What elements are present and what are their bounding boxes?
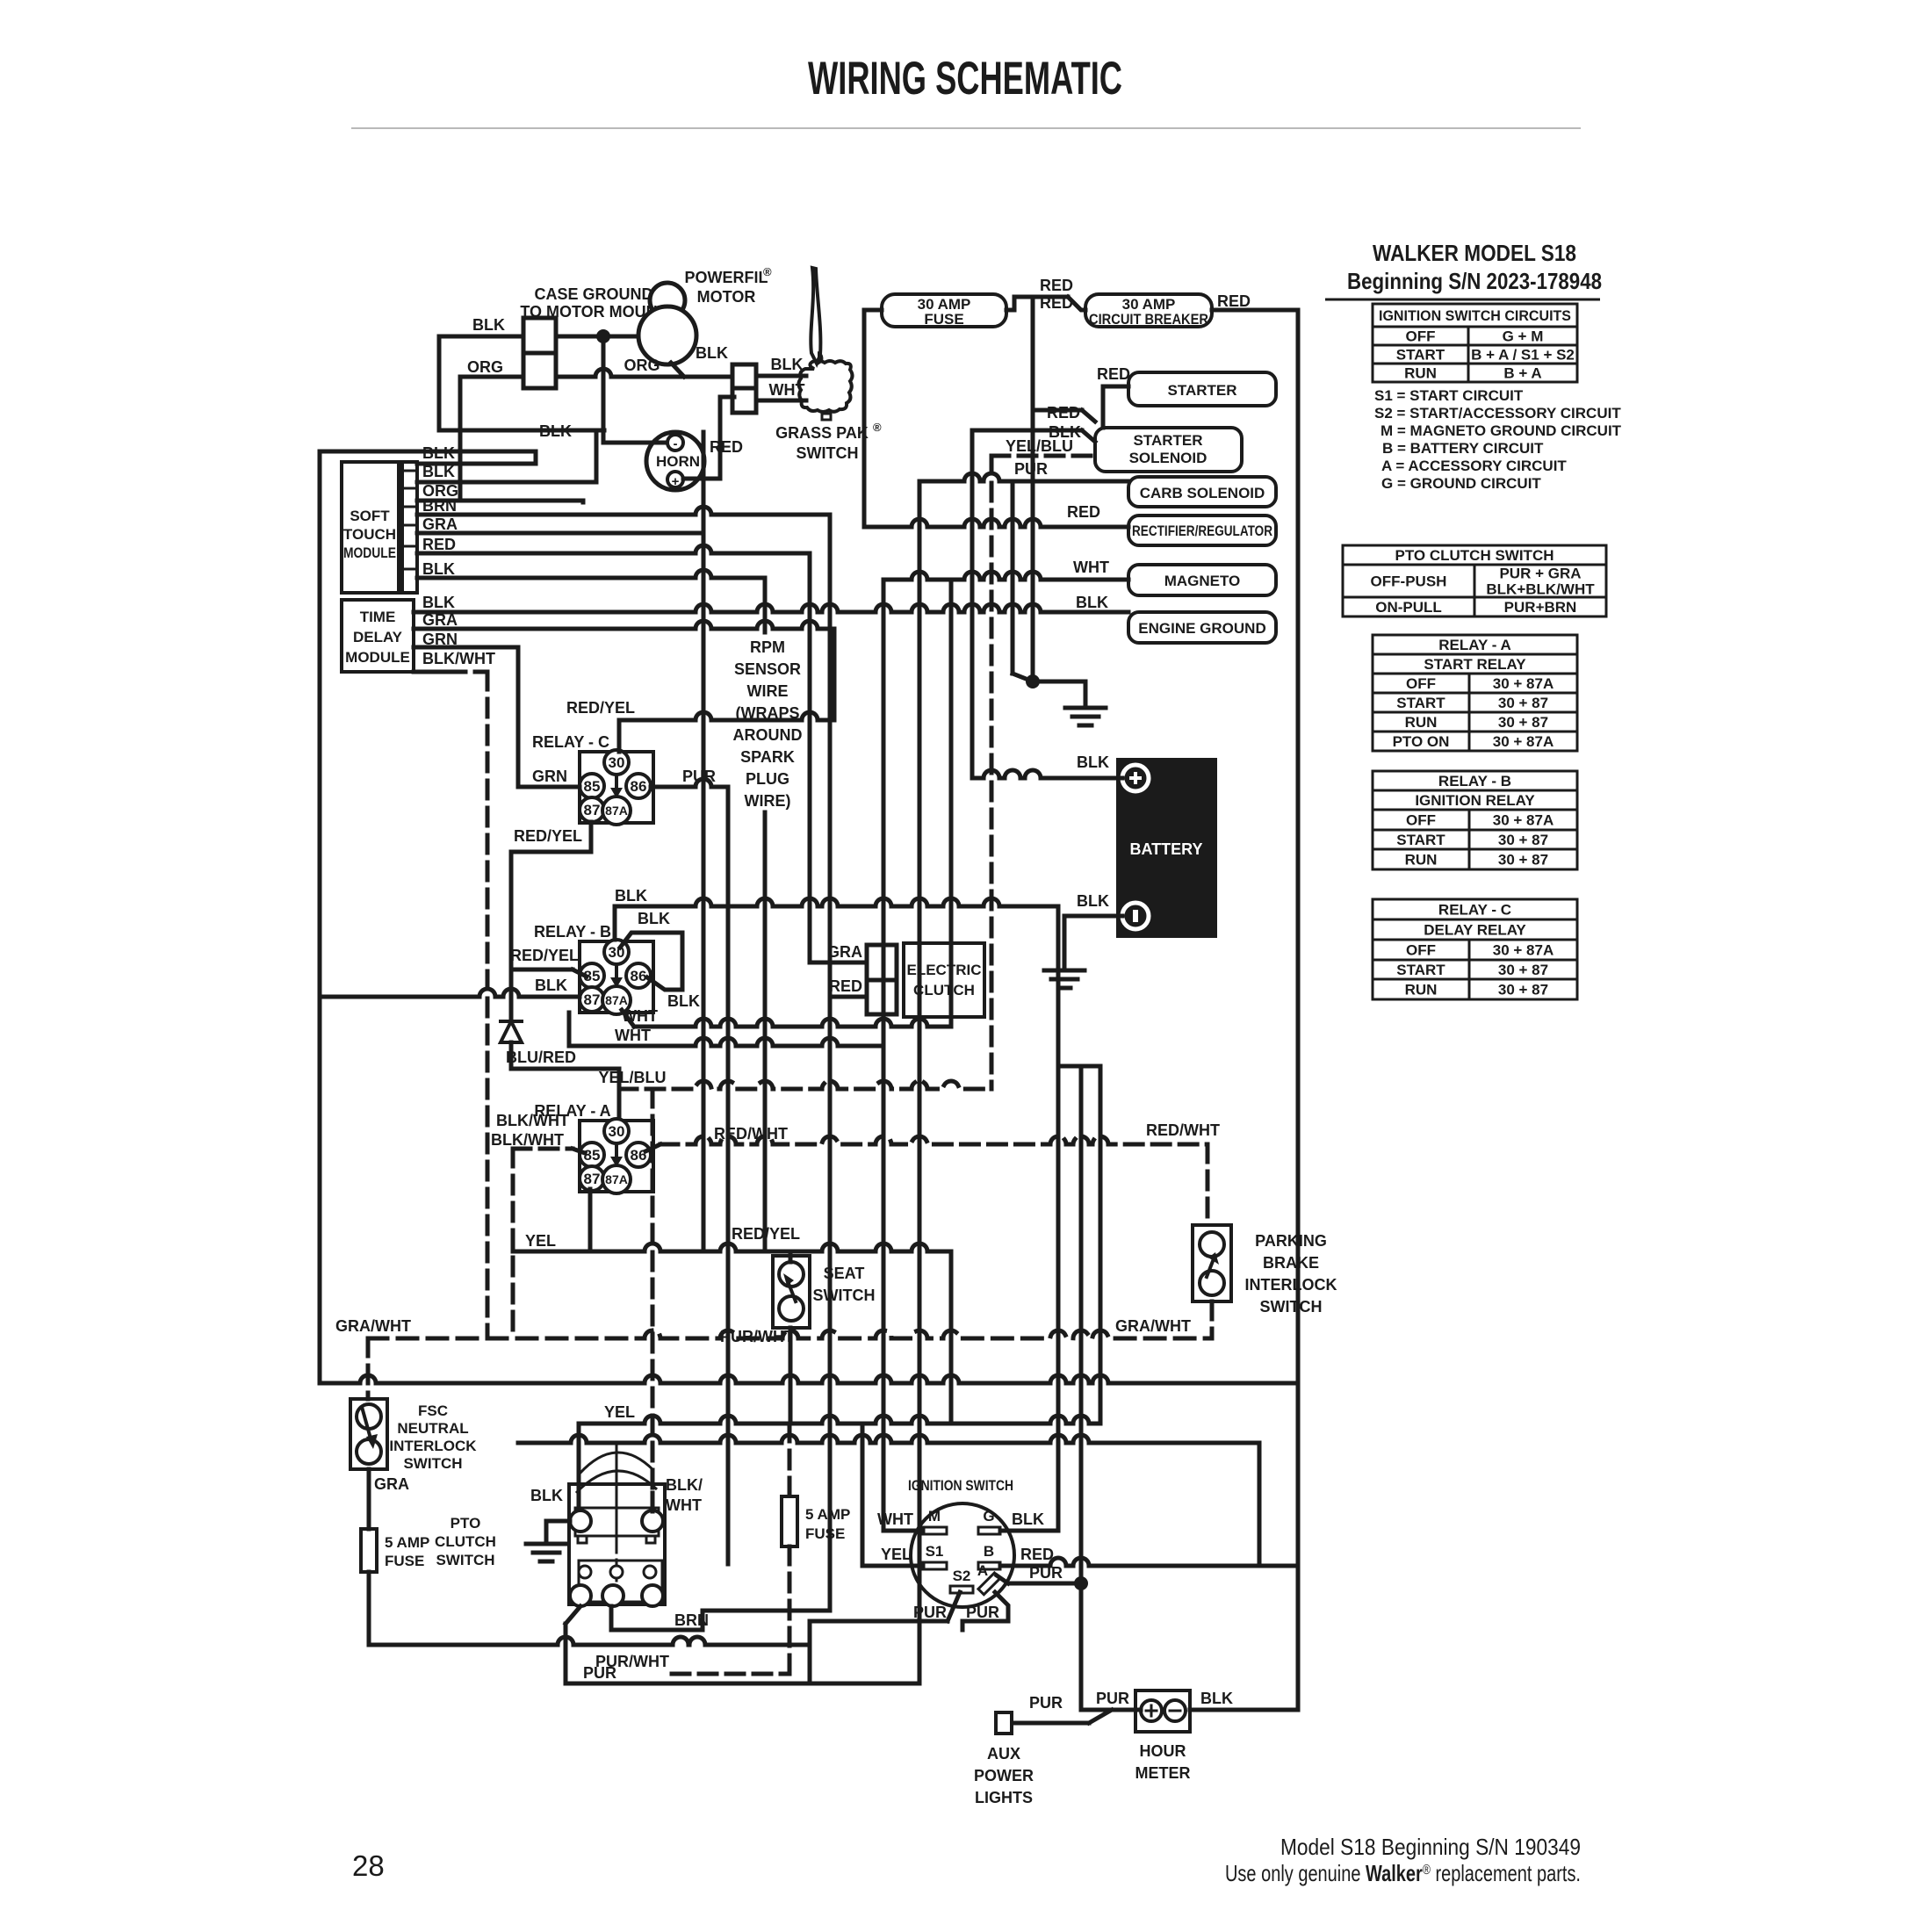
svg-text:IGNITION RELAY: IGNITION RELAY: [1415, 792, 1535, 809]
PTO CLUTCH SWITCH outer box: [569, 1484, 665, 1604]
svg-text:ORG: ORG: [467, 358, 503, 376]
svg-text:START: START: [1396, 832, 1445, 848]
svg-text:RED/WHT: RED/WHT: [1146, 1121, 1220, 1139]
svg-text:BLK: BLK: [530, 1487, 563, 1504]
svg-text:METER: METER: [1135, 1764, 1191, 1782]
relay B arrow 30-87A: [615, 964, 618, 979]
svg-text:30 + 87: 30 + 87: [1498, 695, 1548, 711]
svg-text:PLUG: PLUG: [746, 770, 789, 788]
svg-text:SOLENOID: SOLENOID: [1129, 450, 1207, 466]
svg-text:RED: RED: [1047, 404, 1080, 422]
relay A pin 30: [604, 1119, 629, 1143]
svg-text:BLK+BLK/WHT: BLK+BLK/WHT: [1486, 581, 1595, 598]
30 AMP CIRCUIT BREAKER: [1085, 294, 1212, 327]
svg-text:PUR: PUR: [1029, 1564, 1063, 1582]
fuse F2 5 AMP middle body: [782, 1496, 797, 1546]
svg-text:RELAY - A: RELAY - A: [1438, 637, 1511, 653]
relay A box: [580, 1121, 653, 1192]
ignition terminal B: [978, 1562, 1000, 1569]
ignition terminal S2: [950, 1586, 973, 1593]
svg-text:30 + 87: 30 + 87: [1498, 982, 1548, 998]
wire bus carb PUR vertical: [1011, 481, 1015, 674]
svg-text:86: 86: [631, 778, 647, 795]
svg-text:BLK: BLK: [1076, 594, 1108, 611]
ground symbol engine: [1065, 708, 1106, 725]
relay C pin 87A: [602, 797, 631, 825]
svg-text:PTO CLUTCH SWITCH: PTO CLUTCH SWITCH: [1395, 547, 1554, 564]
svg-text:B + A: B + A: [1503, 365, 1541, 382]
svg-text:RED: RED: [1097, 365, 1130, 383]
svg-text:RED/YEL: RED/YEL: [566, 699, 635, 717]
svg-text:RED: RED: [710, 438, 743, 456]
svg-text:WHT: WHT: [666, 1496, 702, 1514]
svg-text:S1 = START CIRCUIT: S1 = START CIRCUIT: [1374, 387, 1524, 404]
svg-text:BLK: BLK: [1077, 753, 1109, 771]
svg-text:A: A: [977, 1562, 988, 1579]
svg-text:5 AMP: 5 AMP: [385, 1534, 429, 1551]
svg-text:ELECTRIC: ELECTRIC: [907, 962, 982, 978]
svg-text:-: -: [674, 436, 678, 451]
svg-text:PUR/WHT: PUR/WHT: [595, 1653, 669, 1670]
connector C2 grass pak: [732, 364, 756, 388]
svg-text:®: ®: [763, 265, 772, 278]
svg-text:B = BATTERY CIRCUIT: B = BATTERY CIRCUIT: [1382, 440, 1544, 457]
ignition terminal G: [978, 1527, 1000, 1534]
svg-text:CASE GROUND: CASE GROUND: [534, 285, 652, 303]
SOFT TOUCH connector strip: [402, 462, 417, 593]
svg-text:BLK: BLK: [422, 463, 455, 480]
svg-text:SWITCH: SWITCH: [436, 1552, 494, 1568]
svg-text:PUR + GRA: PUR + GRA: [1499, 566, 1581, 582]
svg-text:BLK: BLK: [472, 316, 505, 334]
svg-text:BLK: BLK: [615, 887, 647, 905]
svg-text:BLK: BLK: [771, 356, 804, 373]
svg-text:RPM: RPM: [750, 638, 785, 656]
svg-text:POWER: POWER: [974, 1767, 1034, 1784]
relay B pin 30: [604, 940, 629, 964]
ground symbol PTO: [526, 1544, 566, 1561]
wire GRA/WHT from parking brake dashed: [1210, 1301, 1215, 1338]
PTO switch arcs: [576, 1471, 657, 1493]
wire FSC fuse bottom: [367, 1572, 371, 1645]
wire bus BLK3 RPM lower: [763, 812, 768, 1251]
BATTERY box: [1116, 758, 1217, 938]
svg-text:PUR: PUR: [913, 1604, 947, 1621]
svg-text:S2: S2: [953, 1568, 971, 1584]
svg-text:BLK/WHT: BLK/WHT: [422, 650, 495, 667]
svg-text:FUSE: FUSE: [805, 1525, 845, 1542]
30 AMP FUSE: [882, 294, 1006, 327]
wire bus TDM GRA vertical: [833, 629, 837, 720]
svg-text:START RELAY: START RELAY: [1424, 656, 1526, 673]
svg-text:BLK: BLK: [422, 594, 455, 611]
relay A arrow 30-87A: [615, 1143, 618, 1158]
svg-text:OFF: OFF: [1406, 675, 1436, 692]
svg-text:RED: RED: [829, 977, 862, 995]
table RELAY-A START RELAY: [1373, 635, 1577, 654]
PTO switch lower terminals: [579, 1561, 662, 1602]
svg-text:87: 87: [584, 1171, 601, 1187]
AUX POWER LIGHTS box: [996, 1712, 1012, 1734]
svg-text:WHT: WHT: [615, 1027, 651, 1044]
svg-text:5 AMP: 5 AMP: [805, 1506, 850, 1523]
svg-text:WHT: WHT: [877, 1510, 913, 1528]
svg-text:87A: 87A: [605, 1172, 628, 1186]
svg-text:PTO ON: PTO ON: [1393, 733, 1450, 750]
svg-text:SWITCH: SWITCH: [403, 1455, 462, 1472]
svg-text:RECTIFIER/REGULATOR: RECTIFIER/REGULATOR: [1132, 523, 1272, 539]
svg-text:OFF-PUSH: OFF-PUSH: [1371, 573, 1447, 590]
svg-text:INTERLOCK: INTERLOCK: [1245, 1276, 1337, 1294]
svg-text:YEL: YEL: [525, 1232, 556, 1250]
svg-text:STARTER: STARTER: [1167, 382, 1236, 399]
CARB SOLENOID box: [1128, 477, 1276, 507]
wire bus YEL/BLU dashed vertical: [990, 456, 994, 1089]
svg-text:BLK: BLK: [638, 910, 670, 927]
svg-text:HORN: HORN: [656, 453, 700, 470]
svg-text:ON-PULL: ON-PULL: [1375, 599, 1442, 616]
wire bus right verticals: [1058, 1064, 1100, 1069]
wire motor lead diagonal: [671, 363, 684, 377]
svg-text:A = ACCESSORY CIRCUIT: A = ACCESSORY CIRCUIT: [1381, 458, 1567, 474]
svg-text:+: +: [672, 474, 680, 489]
svg-text:BLK: BLK: [1077, 892, 1109, 910]
MAGNETO box: [1128, 565, 1276, 595]
svg-text:START: START: [1396, 695, 1445, 711]
svg-text:BLK: BLK: [667, 992, 700, 1010]
svg-text:MAGNETO: MAGNETO: [1164, 573, 1241, 589]
svg-text:RELAY - B: RELAY - B: [534, 923, 611, 941]
RECTIFIER/REGULATOR box: [1128, 515, 1276, 545]
svg-text:30: 30: [609, 754, 625, 771]
svg-text:RED/YEL: RED/YEL: [510, 947, 579, 964]
wire bus RED clutch vertical: [808, 553, 812, 962]
svg-text:BLK: BLK: [535, 977, 567, 994]
relay A pin 87A: [602, 1165, 631, 1193]
table PTO CLUTCH SWITCH: [1343, 545, 1606, 565]
svg-text:RELAY - C: RELAY - C: [1438, 902, 1511, 919]
svg-text:BLK: BLK: [422, 560, 455, 578]
svg-text:M: M: [928, 1508, 941, 1525]
SOFT TOUCH MODULE box: [342, 462, 399, 593]
relay B box: [580, 941, 653, 1013]
svg-text:HOUR: HOUR: [1140, 1742, 1186, 1760]
diode D1: [501, 1021, 522, 1042]
relay B pin 85: [580, 963, 604, 988]
svg-text:CIRCUIT BREAKER: CIRCUIT BREAKER: [1089, 311, 1208, 328]
svg-text:87A: 87A: [605, 804, 628, 818]
svg-text:SPARK: SPARK: [740, 748, 795, 766]
wire bus WHT relay vertical: [949, 580, 954, 1027]
relay C pin 86: [626, 774, 651, 798]
svg-text:GRA: GRA: [422, 611, 458, 629]
table IGNITION SWITCH CIRCUITS: [1373, 304, 1577, 327]
svg-text:Beginning S/N 2023-178948: Beginning S/N 2023-178948: [1347, 268, 1602, 294]
svg-text:GRA/WHT: GRA/WHT: [1115, 1317, 1191, 1335]
svg-text:BLK/WHT: BLK/WHT: [491, 1131, 564, 1149]
relay C pin 85: [580, 774, 604, 798]
svg-text:LIGHTS: LIGHTS: [975, 1789, 1033, 1806]
svg-text:RUN: RUN: [1404, 365, 1437, 382]
svg-text:ENGINE GROUND: ENGINE GROUND: [1138, 620, 1265, 637]
svg-text:BRAKE: BRAKE: [1263, 1254, 1319, 1272]
svg-text:WIRING SCHEMATIC: WIRING SCHEMATIC: [808, 53, 1122, 105]
svg-text:RED: RED: [1040, 277, 1073, 294]
svg-text:BLK/: BLK/: [666, 1476, 703, 1494]
svg-text:IGNITION SWITCH CIRCUITS: IGNITION SWITCH CIRCUITS: [1379, 307, 1571, 324]
svg-text:BATTERY: BATTERY: [1130, 840, 1203, 858]
svg-text:RED: RED: [1020, 1546, 1054, 1563]
svg-text:IGNITION SWITCH: IGNITION SWITCH: [908, 1477, 1013, 1494]
svg-text:RUN: RUN: [1405, 982, 1438, 998]
svg-text:Use only genuine Walker® repla: Use only genuine Walker® replacement par…: [1225, 1860, 1581, 1886]
svg-text:SOFT: SOFT: [350, 508, 390, 524]
wire dashed vertical to PTO BLK/WHT: [651, 1089, 655, 1511]
svg-text:NEUTRAL: NEUTRAL: [397, 1420, 468, 1437]
svg-text:DELAY: DELAY: [353, 629, 403, 645]
svg-text:WALKER MODEL S18: WALKER MODEL S18: [1373, 240, 1576, 266]
svg-text:GRA/WHT: GRA/WHT: [335, 1317, 411, 1335]
wire left loop vertical: [318, 451, 322, 1383]
svg-text:TOUCH: TOUCH: [343, 526, 396, 543]
svg-text:YEL: YEL: [881, 1546, 912, 1563]
svg-text:YEL/BLU: YEL/BLU: [1006, 437, 1073, 455]
svg-text:BLK: BLK: [696, 344, 728, 362]
grass pak spark plug wire antenna: [811, 268, 820, 364]
svg-text:PARKING: PARKING: [1255, 1232, 1327, 1250]
TIME DELAY MODULE box: [342, 600, 414, 672]
svg-text:TIME: TIME: [360, 609, 396, 625]
relay A pin 85: [580, 1143, 604, 1167]
svg-text:SENSOR: SENSOR: [734, 660, 801, 678]
svg-text:YEL: YEL: [604, 1403, 635, 1421]
svg-text:G + M: G + M: [1503, 328, 1544, 345]
svg-text:YEL/BLU: YEL/BLU: [598, 1069, 666, 1086]
grass pak switch body: [799, 361, 853, 412]
SEAT SWITCH box: [773, 1256, 810, 1328]
svg-text:STARTER: STARTER: [1133, 432, 1202, 449]
wire vertical to horn: [602, 336, 606, 443]
svg-text:WIRE: WIRE: [747, 682, 789, 700]
svg-text:FSC: FSC: [418, 1402, 448, 1419]
ENGINE GROUND box: [1128, 612, 1276, 643]
node engine ground junction: [1031, 620, 1035, 681]
svg-text:FUSE: FUSE: [385, 1553, 424, 1569]
connector C1 case ground: [523, 318, 556, 353]
svg-text:GRA: GRA: [422, 515, 458, 533]
svg-text:RUN: RUN: [1405, 714, 1438, 731]
wire long horizontal 1643: [518, 1435, 1259, 1443]
svg-text:WHT: WHT: [1073, 559, 1109, 576]
svg-text:OFF: OFF: [1406, 812, 1436, 829]
svg-text:GRA: GRA: [374, 1475, 409, 1493]
ELECTRIC CLUTCH box: [904, 943, 984, 1017]
svg-text:BLK/WHT: BLK/WHT: [496, 1112, 569, 1129]
svg-text:MODULE: MODULE: [345, 649, 410, 666]
svg-text:PUR: PUR: [1096, 1690, 1129, 1707]
svg-text:87: 87: [584, 991, 601, 1008]
svg-text:BLK: BLK: [1012, 1510, 1044, 1528]
relay B pin 86: [626, 963, 651, 988]
PARKING BRAKE INTERLOCK SWITCH box: [1193, 1225, 1231, 1301]
svg-text:G: G: [983, 1508, 994, 1525]
svg-text:AUX: AUX: [987, 1745, 1020, 1763]
fuse F1 5 AMP left: [361, 1529, 377, 1572]
PTO switch upper terminals: [575, 1508, 659, 1536]
svg-text:MOTOR: MOTOR: [697, 288, 756, 306]
wire bus relay BLK vertical: [1056, 906, 1061, 1531]
svg-text:RED/WHT: RED/WHT: [714, 1125, 788, 1143]
FSC NEUTRAL INTERLOCK SWITCH box: [366, 1338, 371, 1399]
svg-text:Model S18 Beginning S/N 190349: Model S18 Beginning S/N 190349: [1280, 1834, 1581, 1860]
svg-text:RED: RED: [422, 536, 456, 553]
svg-text:RELAY - C: RELAY - C: [532, 733, 609, 751]
svg-text:PUR: PUR: [1029, 1694, 1063, 1712]
svg-text:WIRE): WIRE): [745, 792, 791, 810]
svg-text:INTERLOCK: INTERLOCK: [389, 1438, 477, 1454]
ignition terminal S1: [923, 1562, 947, 1569]
svg-text:30 + 87: 30 + 87: [1498, 714, 1548, 731]
svg-text:GRA: GRA: [827, 943, 862, 961]
svg-text:OFF: OFF: [1406, 942, 1436, 959]
svg-text:PTO: PTO: [451, 1515, 481, 1532]
svg-text:G = GROUND CIRCUIT: G = GROUND CIRCUIT: [1381, 475, 1541, 492]
relay B pin 87A: [602, 986, 631, 1014]
wire bus GRA vertical x801: [702, 432, 706, 1251]
svg-text:86: 86: [631, 1147, 647, 1164]
svg-text:AROUND: AROUND: [733, 726, 803, 744]
wire bus PUR long vertical: [918, 481, 922, 1683]
wire bus BLK3 RPM upper: [763, 578, 768, 632]
svg-text:30 + 87A: 30 + 87A: [1493, 733, 1554, 750]
node junction motor BLK: [556, 335, 640, 339]
wire fuse left vertical: [864, 308, 882, 313]
svg-text:GRN: GRN: [532, 768, 567, 785]
svg-text:30 + 87A: 30 + 87A: [1493, 942, 1554, 959]
svg-text:30 + 87: 30 + 87: [1498, 832, 1548, 848]
wire bus solenoid BLK to battery+: [970, 430, 975, 778]
ignition terminal A: [978, 1573, 1000, 1595]
svg-text:S2 = START/ACCESSORY CIRCUIT: S2 = START/ACCESSORY CIRCUIT: [1374, 405, 1621, 422]
svg-text:87: 87: [584, 802, 601, 818]
wire right edge vertical RED: [1296, 310, 1301, 1710]
svg-text:BLK: BLK: [539, 422, 572, 440]
svg-text:FUSE: FUSE: [924, 311, 963, 328]
svg-text:POWERFIL: POWERFIL: [685, 269, 768, 286]
wire PUR/WHT dashed to fuse: [788, 1424, 792, 1496]
ELECTRIC CLUTCH connector: [867, 945, 897, 980]
node PUR junction: [1074, 1576, 1088, 1590]
wire bus WHT magneto vertical: [882, 580, 886, 1531]
svg-text:OFF: OFF: [1406, 328, 1436, 345]
ignition terminal M: [923, 1527, 947, 1534]
svg-text:®: ®: [873, 421, 882, 434]
svg-text:85: 85: [584, 778, 601, 795]
svg-text:PUR: PUR: [1014, 460, 1048, 478]
HOUR METER box: [1135, 1690, 1190, 1732]
table RELAY-C DELAY RELAY: [1373, 899, 1577, 919]
wire long horizontal mid: [320, 1375, 1298, 1383]
relay C arrow 30-87A: [615, 775, 618, 789]
ground symbol battery: [1044, 970, 1085, 988]
relay A pin 86: [626, 1143, 651, 1167]
svg-text:S1: S1: [926, 1543, 944, 1560]
svg-text:BLK: BLK: [1200, 1690, 1233, 1707]
svg-text:MODULE: MODULE: [343, 544, 396, 561]
svg-text:RED: RED: [1217, 292, 1251, 310]
svg-text:ORG: ORG: [624, 357, 660, 374]
wire bus BRN vertical: [828, 515, 833, 1611]
table RELAY-B IGNITION RELAY: [1373, 771, 1577, 790]
svg-text:SWITCH: SWITCH: [813, 1287, 876, 1304]
svg-text:M = MAGNETO GROUND CIRCUIT: M = MAGNETO GROUND CIRCUIT: [1381, 422, 1622, 439]
svg-text:CLUTCH: CLUTCH: [435, 1533, 496, 1550]
svg-text:START: START: [1396, 347, 1445, 364]
relay C box: [580, 752, 653, 823]
svg-text:30: 30: [609, 1123, 625, 1140]
relay A pin 87: [580, 1166, 604, 1191]
battery positive terminal: [1122, 765, 1149, 791]
horn: [646, 432, 704, 490]
relay B pin 87: [580, 987, 604, 1012]
svg-text:RED/YEL: RED/YEL: [732, 1225, 800, 1243]
battery negative terminal: [1122, 903, 1149, 929]
STARTER SOLENOID box: [1095, 428, 1242, 472]
svg-text:GRASS PAK: GRASS PAK: [775, 424, 869, 442]
svg-text:30 + 87A: 30 + 87A: [1493, 812, 1554, 829]
svg-text:BLU/RED: BLU/RED: [506, 1049, 576, 1066]
svg-text:SEAT: SEAT: [824, 1265, 865, 1282]
STARTER box: [1128, 372, 1276, 406]
svg-text:BRN: BRN: [422, 497, 457, 515]
svg-text:RUN: RUN: [1405, 852, 1438, 869]
svg-text:30 + 87A: 30 + 87A: [1493, 675, 1554, 692]
svg-text:30 + 87: 30 + 87: [1498, 852, 1548, 869]
svg-text:B: B: [984, 1543, 994, 1560]
wire YEL to ignition S1: [861, 1424, 865, 1566]
svg-text:START: START: [1396, 962, 1445, 978]
svg-text:PUR+BRN: PUR+BRN: [1504, 599, 1577, 616]
svg-text:CARB SOLENOID: CARB SOLENOID: [1140, 485, 1265, 501]
svg-text:PUR: PUR: [966, 1604, 999, 1621]
svg-text:28: 28: [352, 1849, 385, 1882]
svg-text:CLUTCH: CLUTCH: [913, 982, 975, 998]
svg-text:86: 86: [631, 968, 647, 984]
svg-text:SWITCH: SWITCH: [1260, 1298, 1323, 1316]
svg-text:30 + 87: 30 + 87: [1498, 962, 1548, 978]
svg-text:SWITCH: SWITCH: [797, 444, 859, 462]
title divider rule: [351, 127, 1581, 129]
svg-text:B + A / S1 + S2: B + A / S1 + S2: [1471, 347, 1575, 364]
relay C pin 87: [580, 797, 604, 822]
relay C pin 30: [604, 750, 629, 775]
svg-text:87A: 87A: [605, 993, 628, 1007]
wire breaker-left vertical: [1031, 297, 1035, 681]
PTO switch center line: [616, 1445, 618, 1546]
svg-text:RED: RED: [1067, 503, 1100, 521]
svg-text:DELAY RELAY: DELAY RELAY: [1424, 922, 1526, 939]
svg-text:RED/YEL: RED/YEL: [514, 827, 582, 845]
svg-text:RELAY - B: RELAY - B: [1438, 773, 1511, 789]
